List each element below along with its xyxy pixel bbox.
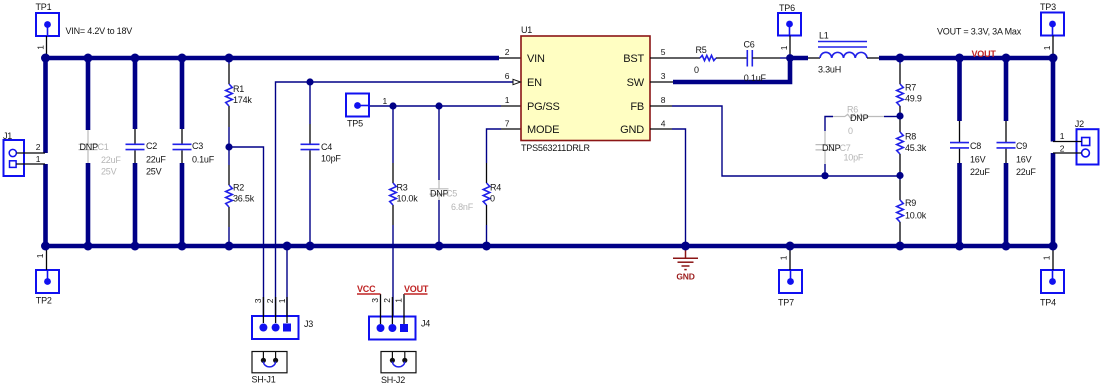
wire R3 bottom crossing bus to J4 pin 2 <box>392 205 394 225</box>
junction dot EN/C4 <box>306 78 313 85</box>
wire R7 top <box>899 58 901 64</box>
svg-text:EN: EN <box>527 77 542 89</box>
svg-text:VOUT = 3.3V, 3A Max: VOUT = 3.3V, 3A Max <box>937 27 1022 37</box>
svg-text:R9: R9 <box>905 198 916 208</box>
wire C7 bottom to FB wire <box>824 164 826 176</box>
wire PG/SS pin stub <box>501 105 521 107</box>
junction R4 on GND bus <box>482 242 491 251</box>
svg-text:SH-J1: SH-J1 <box>252 375 276 385</box>
wire R1 top from VIN bus <box>228 58 230 64</box>
test point TP7 <box>779 248 802 293</box>
junction R7 on VOUT bus <box>896 54 905 63</box>
junction C3 on GND bus <box>178 242 187 251</box>
svg-text:C3: C3 <box>192 141 203 151</box>
wire J2 pin 2 stub <box>1053 152 1082 154</box>
svg-text:45.3k: 45.3k <box>905 143 927 153</box>
svg-text:6.8nF: 6.8nF <box>451 202 474 212</box>
connector J2 box <box>1077 129 1099 164</box>
svg-text:0.1uF: 0.1uF <box>192 155 215 165</box>
wire VOUT bus <box>879 56 1053 61</box>
svg-text:R1: R1 <box>233 84 244 94</box>
net label VCC stub line <box>357 293 381 295</box>
capacitor C3 plates <box>173 143 192 145</box>
svg-text:1: 1 <box>36 45 46 50</box>
resistor R3 <box>390 183 397 205</box>
resistor R2 <box>226 185 233 207</box>
connector J4 box <box>369 317 416 340</box>
wire GND net pin 4 down to bus <box>672 129 686 246</box>
capacitor C3 column <box>180 58 185 129</box>
inductor L1 core bars <box>818 41 867 43</box>
svg-text:6: 6 <box>505 71 510 81</box>
wire R1 bottom to junction <box>228 106 230 127</box>
jumper SH-J2 box <box>381 352 416 373</box>
svg-text:C8: C8 <box>970 141 981 151</box>
svg-text:DNP: DNP <box>822 143 841 153</box>
svg-text:C2: C2 <box>146 141 157 151</box>
wire J4 pin 1 stub VOUT <box>403 294 405 324</box>
jumper SH-J2 pins <box>391 352 393 359</box>
capacitor C6 plates <box>746 50 748 67</box>
svg-text:SW: SW <box>627 77 645 89</box>
svg-text:1: 1 <box>779 45 789 50</box>
svg-text:C6: C6 <box>744 40 755 50</box>
junction dot R1/R2 divider <box>225 143 232 150</box>
jumper SH-J1 box <box>252 352 287 373</box>
svg-text:49.9: 49.9 <box>905 94 922 104</box>
connector J1 pin 2 circle <box>9 149 16 156</box>
wire SW node to L1 <box>808 57 820 59</box>
svg-text:VCC: VCC <box>357 284 376 294</box>
svg-text:R7: R7 <box>905 83 916 93</box>
net label VOUT stub line <box>404 293 428 295</box>
capacitor C8 plates <box>950 142 969 144</box>
svg-text:0: 0 <box>848 126 853 136</box>
wire J2 pin 2 to GND bus <box>1051 153 1056 248</box>
connector J2 pin 2 circle <box>1082 149 1090 157</box>
svg-text:GND: GND <box>620 124 644 136</box>
junction C9 on GND bus <box>1002 242 1011 251</box>
svg-text:22uF: 22uF <box>1016 167 1036 177</box>
svg-text:1: 1 <box>779 255 789 260</box>
svg-text:16V: 16V <box>1016 155 1032 165</box>
svg-text:R8: R8 <box>905 132 916 142</box>
svg-text:PG/SS: PG/SS <box>527 101 560 113</box>
test point TP2 <box>36 248 59 293</box>
junction dots PG/SS line <box>389 102 396 109</box>
junction C8 on GND bus <box>955 242 964 251</box>
junction C3 on VIN bus <box>178 54 187 63</box>
U1 pin 5 BST stub <box>650 57 672 59</box>
svg-text:0: 0 <box>490 194 495 204</box>
svg-text:8: 8 <box>661 95 666 105</box>
svg-text:3: 3 <box>661 71 666 81</box>
wire C5 column <box>438 106 440 180</box>
junction dots FB node <box>896 112 903 119</box>
capacitor C4 plates <box>301 143 320 145</box>
capacitor C9 column <box>1004 58 1009 121</box>
resistor R5 <box>700 55 716 60</box>
junction C2 on GND bus <box>131 242 140 251</box>
svg-text:1: 1 <box>1060 131 1065 141</box>
connector J3 pin 2 dot <box>272 324 280 332</box>
junction TP1/J1 on VIN bus <box>41 54 50 63</box>
ground symbol GND <box>673 248 698 270</box>
wire J1 pin 1 stub <box>16 163 45 165</box>
svg-text:TP1: TP1 <box>36 2 52 12</box>
jumper SH-J1 shunt arc <box>263 362 275 367</box>
wire VIN top bus <box>46 56 500 61</box>
svg-text:FB: FB <box>630 101 644 113</box>
capacitor C2 plates <box>126 143 145 145</box>
wire C5 bottom to GND bus <box>438 200 440 246</box>
junction TP7 on GND bus <box>786 242 795 251</box>
connector J3 pin 1 square pad <box>283 324 291 332</box>
wire J3 pin 1 stub <box>286 297 288 323</box>
svg-text:10pF: 10pF <box>321 154 341 164</box>
resistor R7 <box>897 84 904 106</box>
junction R9 on GND bus <box>896 242 905 251</box>
wire J1 pin1 to GND bus <box>43 164 48 246</box>
svg-text:C9: C9 <box>1016 141 1027 151</box>
resistor R9 <box>897 200 904 222</box>
wire MODE pin stub <box>501 128 521 130</box>
wire SW thick run <box>673 58 808 82</box>
svg-text:2: 2 <box>505 47 510 57</box>
jumper SH-J1 pins <box>262 352 264 359</box>
svg-text:10.0k: 10.0k <box>397 194 419 204</box>
svg-text:25V: 25V <box>101 167 117 177</box>
junction C8 on VOUT bus <box>955 54 964 63</box>
svg-text:1: 1 <box>35 253 45 258</box>
wire R8 to FB node <box>899 154 901 172</box>
svg-text:1: 1 <box>277 298 287 303</box>
capacitor C1 DNP grey body <box>87 130 89 144</box>
svg-text:1: 1 <box>505 95 510 105</box>
svg-text:1: 1 <box>1042 45 1052 50</box>
junction TP2 on GND bus <box>41 242 50 251</box>
svg-text:TP2: TP2 <box>36 295 52 305</box>
svg-text:TP3: TP3 <box>1040 2 1056 12</box>
svg-text:22uF: 22uF <box>101 155 121 165</box>
svg-text:1: 1 <box>383 96 388 106</box>
wire VIN pin2 stub <box>499 57 521 59</box>
wire EN net from J3 to pin 6 <box>276 82 514 316</box>
svg-text:SH-J2: SH-J2 <box>381 375 405 385</box>
svg-text:R2: R2 <box>233 182 244 192</box>
connector J3 pin 3 dot <box>259 324 267 332</box>
connector J3 box <box>252 316 299 339</box>
svg-text:7: 7 <box>505 119 510 129</box>
junction C1 on GND bus <box>84 242 93 251</box>
resistor R6 DNP grey body <box>833 116 845 118</box>
svg-text:R4: R4 <box>490 183 501 193</box>
svg-text:TP4: TP4 <box>1040 297 1056 307</box>
connector J1 box <box>4 140 25 176</box>
junction C1 on VIN bus <box>84 54 93 63</box>
wire R5 to C6 <box>716 57 747 59</box>
capacitor C4 column <box>309 82 311 124</box>
junction R1 on VIN bus <box>225 54 234 63</box>
svg-text:25V: 25V <box>146 167 162 177</box>
wire J1 pin 2 stub <box>17 152 46 154</box>
svg-text:VIN: VIN <box>527 53 545 65</box>
wire R9 bottom to GND bus <box>899 222 901 242</box>
junction C2 on VIN bus <box>131 54 140 63</box>
svg-text:3: 3 <box>370 298 380 303</box>
junction J3 pin1 on GND bus <box>283 242 292 251</box>
U1 pin 3 SW stub <box>650 81 673 83</box>
svg-text:4: 4 <box>661 119 666 129</box>
wire R2 bottom to GND bus <box>228 207 230 227</box>
svg-text:R3: R3 <box>397 183 408 193</box>
test point TP3 <box>1041 13 1064 57</box>
svg-text:36.5k: 36.5k <box>233 193 255 203</box>
svg-text:10pF: 10pF <box>844 152 864 162</box>
junction C5 on GND bus <box>435 242 444 251</box>
wire FB net pin 8 to divider <box>672 106 900 176</box>
wire GND bottom bus <box>44 244 1056 249</box>
junction TP4 on GND bus <box>1049 242 1058 251</box>
wire C6 to BST node <box>752 57 780 59</box>
wire VIN bus left drop to J1 pin 2 <box>43 56 48 153</box>
capacitor C8 column <box>957 58 962 121</box>
junction R2 on GND bus <box>225 242 234 251</box>
wire R3 column PG/SS to J4 pin 2 <box>392 106 394 163</box>
op-amp U1 TPS563211DRLR body <box>521 36 650 141</box>
svg-text:C4: C4 <box>321 142 332 152</box>
connector J2 pin 1 square <box>1082 138 1090 146</box>
svg-text:0: 0 <box>694 65 699 75</box>
svg-text:DNP: DNP <box>850 113 869 123</box>
capacitor C1 DNP column thick wires <box>86 58 91 130</box>
svg-text:5: 5 <box>661 47 666 57</box>
svg-text:DNP: DNP <box>80 142 99 152</box>
svg-text:3.3uH: 3.3uH <box>818 65 841 75</box>
svg-text:22uF: 22uF <box>970 167 990 177</box>
svg-text:10.0k: 10.0k <box>905 211 927 221</box>
wire BST to R5 <box>672 57 700 59</box>
svg-text:0.1uF: 0.1uF <box>744 73 767 83</box>
svg-text:1: 1 <box>394 298 404 303</box>
svg-text:C1: C1 <box>98 142 109 152</box>
connector J1 pin 1 square <box>10 161 17 168</box>
capacitor C5 DNP grey body <box>438 180 440 189</box>
svg-text:C5: C5 <box>446 189 457 199</box>
svg-text:2: 2 <box>1060 144 1065 154</box>
wire J4 pin 3 stub VCC <box>380 294 382 324</box>
svg-text:VOUT: VOUT <box>972 49 997 59</box>
svg-text:J1: J1 <box>3 131 12 141</box>
wire FB DNP network corner <box>825 117 833 132</box>
wire PG/SS net TP5 to pin 1 <box>369 105 501 107</box>
wire J3 pin1 to GND bus <box>286 246 288 316</box>
svg-text:3: 3 <box>253 298 263 303</box>
wire J3 pin 2 stub <box>275 297 277 323</box>
svg-text:GND: GND <box>676 272 694 282</box>
test point TP1 <box>36 13 59 56</box>
resistor R8 <box>897 132 904 154</box>
svg-text:TP5: TP5 <box>347 119 363 129</box>
test point TP5 <box>346 94 369 117</box>
svg-text:1: 1 <box>36 154 41 164</box>
junction dot SW/BST node at TP6 <box>786 54 794 62</box>
svg-text:R5: R5 <box>696 45 707 55</box>
svg-text:2: 2 <box>382 298 392 303</box>
resistor R1 <box>226 84 233 106</box>
svg-text:J4: J4 <box>421 319 430 329</box>
wire J3 pin 3 stub <box>262 297 264 323</box>
U1 pin 4 GND stub <box>650 128 672 130</box>
svg-text:1: 1 <box>1042 255 1052 260</box>
connector J4 pin 2 dot <box>388 324 396 332</box>
svg-text:TPS563211DRLR: TPS563211DRLR <box>521 143 590 153</box>
svg-text:J2: J2 <box>1075 119 1084 129</box>
svg-text:VOUT: VOUT <box>404 284 429 294</box>
junction GND symbol on GND bus <box>681 242 690 251</box>
capacitor C2 column <box>133 58 138 129</box>
wire MODE net pin 7 to R4 <box>487 129 502 163</box>
svg-text:MODE: MODE <box>527 124 559 136</box>
svg-text:U1: U1 <box>521 25 532 35</box>
svg-text:L1: L1 <box>819 31 829 41</box>
wire J4 pin 2 stub <box>391 297 393 324</box>
connector J4 pin 3 dot <box>377 324 385 332</box>
svg-text:22uF: 22uF <box>146 155 166 165</box>
U1 pin 8 FB stub <box>650 105 672 107</box>
junction C4 on GND bus <box>306 242 315 251</box>
wire L1 to VOUT bus <box>867 57 881 59</box>
wire R4 bottom to GND bus <box>486 205 488 225</box>
U1 pin 6 EN input arrow <box>513 79 521 84</box>
junction C9 on VOUT bus <box>1002 54 1011 63</box>
capacitor C7 DNP grey body <box>824 131 826 144</box>
svg-text:J3: J3 <box>304 319 313 329</box>
wire R6 right to FB divider node <box>884 116 900 118</box>
svg-text:VIN= 4.2V to 18V: VIN= 4.2V to 18V <box>66 26 133 36</box>
wire divider junction to J3 pin 3 <box>229 147 264 316</box>
capacitor C9 plates <box>997 142 1016 144</box>
wire J2 pin 1 stub <box>1053 141 1082 143</box>
svg-text:16V: 16V <box>970 155 986 165</box>
svg-text:2: 2 <box>36 142 41 152</box>
junction TP3 on VOUT bus <box>1049 54 1058 63</box>
inductor L1 <box>820 52 867 58</box>
svg-text:TP7: TP7 <box>778 297 794 307</box>
wire VOUT bus drop to J2 pin 1 <box>1051 56 1056 142</box>
jumper SH-J2 shunt arc <box>392 362 404 367</box>
svg-text:2: 2 <box>265 298 275 303</box>
connector J4 pin 1 square pad <box>400 324 408 332</box>
svg-text:174k: 174k <box>233 95 252 105</box>
resistor R4 <box>483 183 490 205</box>
test point TP6 <box>778 13 801 56</box>
svg-text:TP6: TP6 <box>779 3 795 13</box>
test point TP4 <box>1041 248 1064 293</box>
svg-text:BST: BST <box>623 53 644 65</box>
wire R7 to R8 node <box>899 106 901 132</box>
